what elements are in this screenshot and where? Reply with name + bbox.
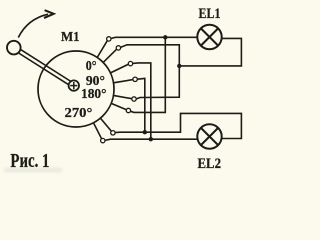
svg-text:270°: 270° bbox=[65, 106, 93, 121]
svg-text:EL2: EL2 bbox=[198, 156, 222, 172]
svg-text:180°: 180° bbox=[81, 87, 107, 102]
svg-text:EL1: EL1 bbox=[199, 6, 221, 22]
svg-text:0°: 0° bbox=[86, 59, 97, 74]
svg-text:M1: M1 bbox=[61, 29, 80, 44]
